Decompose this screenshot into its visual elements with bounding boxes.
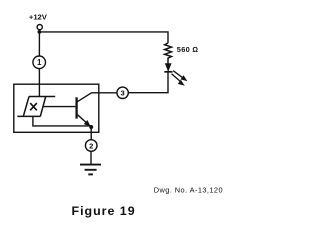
svg-text:Figure 19: Figure 19 (72, 204, 136, 218)
svg-text:3: 3 (120, 89, 124, 98)
transistor Q1 base bar (75, 97, 77, 118)
LED emission arrow 2 (172, 74, 181, 81)
LED D1 (166, 64, 171, 70)
node 3 (circled) (117, 87, 128, 98)
LED emission arrow 1 (173, 71, 183, 78)
photocell X mark (30, 103, 37, 110)
wire: junction down to node 2 (90, 127, 92, 140)
svg-text:+12V: +12V (29, 13, 48, 22)
wire: top horizontal from junction to resistor branch (39, 32, 168, 43)
component box U1 (optocoupler) (14, 84, 99, 132)
photocell (X in parallelogram) (17, 97, 55, 117)
wire: node 2 down to ground (90, 151, 92, 164)
wire: terminal down to node 1 (38, 30, 40, 56)
transistor emitter with arrow (78, 115, 91, 127)
wire: photocell bottom lead to emitter junction (33, 116, 91, 126)
terminal (open circle) at +12V (37, 25, 42, 30)
wire: node 3 to transistor collector (77, 93, 117, 102)
svg-text:560 Ω: 560 Ω (177, 45, 199, 54)
resistor R 560 ohm (165, 43, 172, 64)
node 1 (circled) (33, 56, 46, 69)
svg-text:2: 2 (89, 141, 93, 150)
transistor base wire from photocell (43, 106, 75, 108)
wire: LED cathode down and left to node 3 (128, 71, 168, 93)
junction dot at emitter node (89, 125, 93, 129)
node 2 (circled) (85, 140, 97, 152)
ground symbol (80, 164, 101, 166)
wire: node 1 down into box to photocell (38, 69, 40, 97)
svg-text:1: 1 (37, 58, 42, 67)
svg-text:Dwg. No. A-13,120: Dwg. No. A-13,120 (154, 186, 223, 195)
junction dot node A (38, 30, 42, 34)
